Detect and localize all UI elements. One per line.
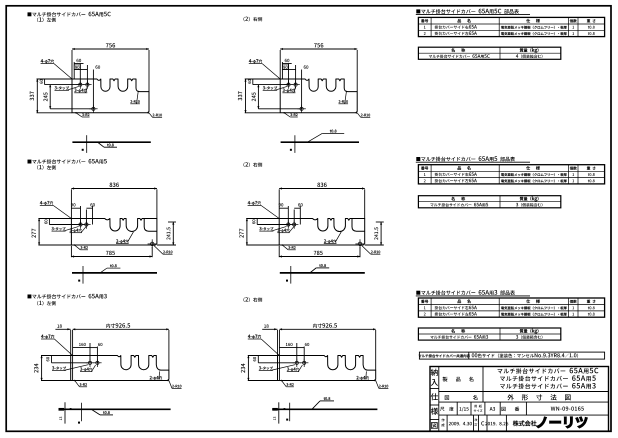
label 3-R2 row3	[286, 383, 293, 386]
label 3-tap	[55, 86, 69, 89]
row product name	[443, 377, 474, 382]
bottom detail row3	[59, 408, 171, 410]
weight table 65A用5C	[418, 47, 560, 59]
label corner 2-R10 row3	[379, 385, 388, 388]
label corner 2-R10 row3	[172, 385, 181, 388]
parts header 65A用5	[416, 156, 515, 161]
label corner 2-R10	[153, 114, 162, 117]
inner step row2	[352, 219, 365, 232]
dims 18 / uchi 926.5	[70, 330, 72, 356]
dim 836	[278, 189, 280, 218]
label 2-R10 slope	[130, 100, 139, 103]
label 4-phi7 row2	[248, 201, 261, 205]
title row1 right	[243, 17, 262, 22]
row scale/size/number	[456, 402, 458, 415]
bend line row3	[278, 356, 280, 381]
label bottom 3-R2	[290, 113, 297, 116]
label corner 2-R10 row2	[371, 251, 380, 254]
top dims 90/60	[80, 206, 82, 225]
bottom detail row2	[72, 272, 157, 274]
parts header 65A用5C	[416, 9, 519, 14]
title row2 left	[27, 159, 106, 164]
dims 18 / uchi 926.5	[277, 330, 279, 356]
label 2-phi4 row3	[150, 376, 162, 380]
label corner 2-R10	[361, 114, 370, 117]
label 3-phi4 row2	[70, 229, 82, 233]
dim 836	[70, 189, 72, 218]
parts table 65A用5C	[418, 17, 604, 36]
part outline row2 x=71.4	[71, 219, 156, 246]
label 3-tap row2	[52, 227, 66, 230]
notes bar	[419, 352, 604, 359]
dim 241.5	[376, 221, 384, 223]
title row2 right	[243, 162, 262, 167]
dim 785	[278, 246, 280, 257]
title row3 right	[243, 297, 262, 302]
left dims 234/60	[41, 355, 71, 357]
title block rows	[439, 391, 609, 393]
hole bottom row2	[150, 242, 154, 246]
parts table 65A用3	[418, 298, 604, 317]
label 4-phi7 row2	[40, 201, 53, 205]
label 2-R10 slope	[339, 100, 348, 103]
left dims 277/60	[246, 218, 279, 220]
label 4-phi7	[41, 59, 54, 63]
dim 756	[279, 50, 281, 79]
inner step row2	[144, 219, 157, 232]
label 3-R2 row2	[80, 246, 87, 249]
label 3-phi4 row3	[80, 367, 92, 371]
left dims 337/245/60	[37, 78, 73, 80]
top dims 160/60	[89, 343, 91, 363]
top dims 60/90/60	[73, 62, 75, 79]
left dims 337/245/60	[245, 78, 281, 80]
label 3-tap row2	[259, 227, 273, 230]
label 3-tap row3	[259, 366, 273, 369]
label 3-tap	[263, 86, 277, 89]
holes top row2	[79, 223, 82, 226]
label corner 2-R10 row2	[163, 251, 172, 254]
row dates / noritz logo	[446, 415, 448, 431]
label 3-phi4 row2	[277, 229, 289, 233]
holes top row3	[88, 361, 91, 364]
dim 241.5	[168, 221, 176, 223]
label 2-phi4 row2	[324, 239, 336, 243]
parts table 65A用5	[418, 165, 604, 184]
bottom detail row3	[272, 408, 377, 410]
weight table 65A用3	[418, 328, 560, 340]
part outline row3 x=70.7	[71, 356, 169, 381]
label 4-phi7	[249, 59, 262, 63]
title row3 left	[27, 294, 106, 299]
label 3-R2 row3	[80, 383, 87, 386]
label bottom 3-R2	[82, 113, 89, 116]
left dims 234/60	[248, 355, 278, 357]
holes top	[79, 83, 82, 86]
left dims 277/60	[38, 218, 71, 220]
title row1 left	[27, 12, 110, 17]
hole bottom	[92, 107, 95, 110]
top dims 60/90/60	[281, 62, 283, 79]
label 3-phi4	[74, 89, 87, 93]
holes top row2	[287, 223, 290, 226]
title block frame	[430, 367, 609, 432]
weight table 65A用5	[418, 196, 560, 208]
holes top	[287, 83, 290, 86]
bottom detail row1	[281, 141, 359, 143]
bottom detail row1	[72, 141, 150, 143]
label 3-phi4 row3	[287, 367, 299, 371]
part outline row1 x=280.2	[280, 79, 357, 113]
part outline row1 x=72	[72, 79, 149, 113]
top dims 160/60	[296, 343, 298, 363]
bend line row3	[72, 356, 74, 381]
top dims 90/60	[287, 206, 289, 225]
dim 785	[70, 246, 72, 257]
bottom detail row2	[280, 272, 365, 274]
part outline row2 x=279.2	[279, 219, 365, 246]
dim 756	[71, 50, 73, 79]
label 3-phi4	[283, 89, 296, 93]
holes top row3	[295, 361, 298, 364]
label 4-phi7 row3	[248, 335, 261, 339]
row drawing name	[445, 395, 449, 400]
part outline row3 x=277.5	[278, 356, 376, 381]
hole bottom	[300, 107, 303, 110]
parts header 65A用3	[416, 290, 515, 295]
label 2-phi4 row3	[356, 376, 368, 380]
label 2-phi4 row2	[116, 239, 128, 243]
label 4-phi7 row3	[41, 335, 54, 339]
label 3-R2 row2	[288, 246, 295, 249]
label 3-tap row3	[52, 366, 66, 369]
hole bottom row2	[358, 242, 362, 246]
